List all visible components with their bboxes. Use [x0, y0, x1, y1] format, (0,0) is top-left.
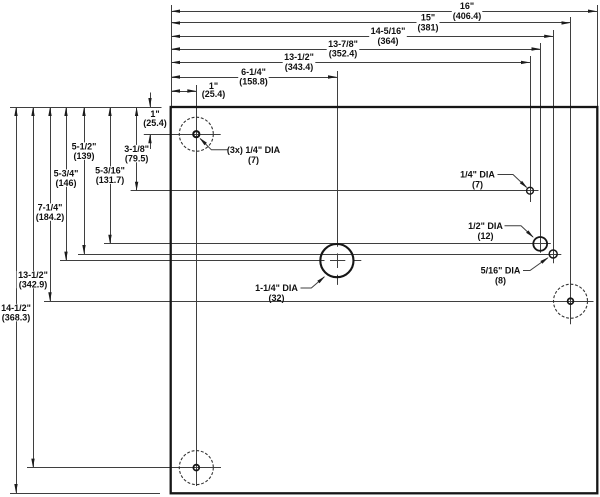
- svg-text:(342.9): (342.9): [19, 280, 48, 290]
- hole 5/16in DIA: [549, 250, 557, 258]
- extension line: horizontal to 1/4in right hole (y=190.7): [131, 190, 539, 192]
- extension line: horizontal to 5/16in hole (y=254): [78, 254, 561, 256]
- svg-text:(7): (7): [248, 155, 259, 165]
- dimension 13-7/8in horizontal: [171, 49, 541, 51]
- hole center 1-1/4in DIA: [320, 244, 353, 277]
- svg-text:(8): (8): [495, 276, 506, 286]
- svg-text:1/2" DIA: 1/2" DIA: [468, 221, 503, 231]
- callout 1-1/4in DIA (32) for center hole: [301, 277, 325, 288]
- svg-text:(352.4): (352.4): [329, 49, 358, 59]
- plate outline rectangle: [171, 107, 598, 493]
- svg-text:(381): (381): [417, 23, 438, 33]
- svg-text:7-1/4": 7-1/4": [38, 203, 63, 213]
- svg-text:13-1/2": 13-1/2": [284, 52, 314, 62]
- hole bottom-left with dashed circle: [193, 465, 199, 471]
- hole 1/2in DIA: [533, 237, 547, 251]
- svg-text:(406.4): (406.4): [453, 11, 482, 21]
- extension line: vertical to bottom-right hole (x=570.5): [570, 17, 572, 324]
- svg-text:3-1/8": 3-1/8": [124, 144, 149, 154]
- svg-text:13-7/8": 13-7/8": [328, 39, 358, 49]
- hole bottom-right with dashed circle: [568, 298, 574, 304]
- hole top-left 1/4in DIA with bolt-pattern dashed circle: [193, 131, 199, 137]
- extension line: plate right edge extended up (x=597): [597, 5, 599, 107]
- svg-text:(343.4): (343.4): [285, 62, 314, 72]
- extension line: vertical to 1/2in hole (x=540.5): [540, 43, 542, 253]
- svg-text:(368.3): (368.3): [2, 313, 31, 323]
- svg-text:(32): (32): [268, 293, 284, 303]
- extension line: plate top edge extended left (y=107): [10, 107, 162, 109]
- dimension 5-3/16in vertical: [110, 107, 112, 244]
- svg-text:(146): (146): [55, 178, 76, 188]
- callout 1/4in DIA (7) for right hole: [498, 175, 527, 188]
- extension line: horizontal through top-left hole (y=134.2): [144, 134, 221, 136]
- extension line: horizontal centerline of 1-1/4in hole (y=260.6): [60, 260, 325, 262]
- dimension 5-3/4in vertical: [66, 107, 68, 261]
- callout 5/16in DIA (8): [523, 258, 548, 271]
- dimension 13-1/2in horizontal: [171, 62, 530, 64]
- dimension 14-1/2in vertical: [16, 107, 18, 493]
- dimension 16in horizontal: [171, 11, 597, 13]
- svg-text:6-1/4": 6-1/4": [241, 67, 266, 77]
- svg-text:(3x) 1/4" DIA: (3x) 1/4" DIA: [227, 145, 281, 155]
- extension line: vertical to 5/16in hole (x=553.2): [553, 30, 555, 263]
- extension line: vertical through top-left & bottom-left holes (x=196.3): [196, 85, 198, 486]
- svg-text:(12): (12): [477, 231, 493, 241]
- svg-text:16": 16": [460, 1, 474, 11]
- svg-text:(25.4): (25.4): [143, 118, 167, 128]
- extension line: vertical to 1/4in right hole (x=530): [530, 56, 532, 202]
- svg-text:5-1/2": 5-1/2": [72, 142, 97, 152]
- extension line: horizontal to bottom-right hole (y=301.2): [44, 301, 594, 303]
- svg-text:(7): (7): [472, 180, 483, 190]
- svg-text:(364): (364): [377, 36, 398, 46]
- svg-text:5/16" DIA: 5/16" DIA: [481, 266, 521, 276]
- extension line: vertical centerline of 1-1/4in hole (x=337): [337, 71, 339, 247]
- dimension 15in horizontal: [171, 22, 571, 24]
- dimension 7-1/4in vertical: [50, 107, 52, 301]
- svg-text:13-1/2": 13-1/2": [18, 270, 48, 280]
- extension line: horizontal through bottom-left hole (y=467.6): [27, 467, 221, 469]
- svg-text:(131.7): (131.7): [96, 175, 125, 185]
- svg-text:1-1/4" DIA: 1-1/4" DIA: [255, 283, 298, 293]
- svg-text:14-1/2": 14-1/2": [1, 303, 31, 313]
- svg-text:(158.8): (158.8): [239, 77, 268, 87]
- svg-text:15": 15": [421, 13, 435, 23]
- callout 1/2in DIA (12): [505, 226, 534, 237]
- dimension 3-1/8in vertical: [136, 107, 138, 191]
- svg-text:(25.4): (25.4): [202, 89, 226, 99]
- extension line: horizontal to 1/2in hole (y=243.8): [104, 243, 551, 245]
- dimension 14-5/16in horizontal: [171, 36, 553, 38]
- svg-text:(79.5): (79.5): [125, 154, 149, 164]
- svg-text:1/4" DIA: 1/4" DIA: [460, 170, 495, 180]
- hole right 1/4in DIA: [527, 187, 534, 194]
- svg-text:5-3/16": 5-3/16": [95, 166, 125, 176]
- svg-text:5-3/4": 5-3/4": [54, 169, 79, 179]
- dimension 13-1/2in-left vertical: [33, 107, 35, 468]
- extension line: plate bottom edge extended left (y=493): [10, 493, 160, 495]
- dimension 6-1/4in horizontal: [171, 77, 337, 79]
- svg-text:(184.2): (184.2): [36, 212, 65, 222]
- svg-text:(139): (139): [73, 151, 94, 161]
- dimension 5-1/2in vertical: [84, 107, 86, 254]
- svg-text:14-5/16": 14-5/16": [371, 26, 406, 36]
- extension line: plate left edge extended up (x=171): [171, 5, 173, 107]
- callout (3x) 1/4in DIA (7) for top-left hole: [200, 139, 228, 150]
- dimension 1in horizontal (top, 171-196.3): [171, 91, 196, 93]
- dimension 1in vertical (left, outside arrows): [150, 93, 152, 108]
